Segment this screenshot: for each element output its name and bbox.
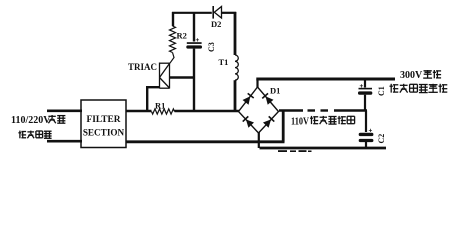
- svg-text:D1: D1: [270, 86, 280, 96]
- diode D2: [212, 6, 214, 19]
- svg-text:FILTER: FILTER: [86, 115, 120, 125]
- resistor R2: [170, 26, 176, 53]
- bridge rectifier D1: [239, 87, 279, 133]
- svg-text:C2: C2: [377, 134, 386, 144]
- svg-text:D2: D2: [211, 19, 221, 29]
- wire: top node left vertical: [172, 12, 174, 26]
- wire: AC input stub top: [47, 110, 82, 113]
- svg-text:110V: 110V: [291, 117, 309, 128]
- wire: doubler link (dashed) from bridge right corner to cap midpoint: [279, 109, 303, 111]
- wire: top horizontal: [172, 12, 212, 14]
- wire: R1 to bridge left corner: [175, 110, 240, 113]
- capacitor C2: [365, 111, 367, 133]
- bridge diode top-left: [243, 93, 254, 104]
- svg-text:TRIAC: TRIAC: [128, 62, 157, 72]
- svg-text:C3: C3: [207, 42, 216, 52]
- svg-text:R2: R2: [177, 31, 187, 41]
- svg-text:300V: 300V: [400, 70, 423, 81]
- svg-text:C1: C1: [377, 86, 386, 96]
- inductor T1: [235, 55, 238, 80]
- filter section box: [81, 100, 126, 148]
- bridge diode top-right: [262, 93, 273, 104]
- wire: C3 bottom lead down to line: [193, 49, 195, 111]
- wire: bridge - output down: [258, 133, 260, 149]
- wire: TRIAC MT2 stub + drop to line: [146, 86, 160, 88]
- bridge diode bottom-left: [243, 116, 254, 127]
- svg-text:SECTION: SECTION: [83, 128, 125, 138]
- bridge diode bottom-right: [263, 116, 274, 127]
- capacitor C1: [364, 80, 366, 88]
- wire: filter bottom output to bridge AC2: [126, 140, 285, 143]
- wire: filter top output to R1: [126, 110, 152, 113]
- wire: triac gate lead: [170, 53, 174, 64]
- wire: bridge + output up and right (300V DC bus): [256, 79, 258, 88]
- wire: negative bus: [260, 147, 387, 150]
- wire: D2 to corner, down to T1: [222, 12, 237, 14]
- svg-text:T1: T1: [219, 57, 229, 67]
- wire: AC input stub bottom: [47, 140, 82, 143]
- svg-text:R1: R1: [155, 101, 165, 111]
- triac TRIAC: [160, 63, 170, 89]
- wire: triac MT1 stub to C3 leg: [170, 76, 196, 78]
- resistor R1 (inrush): [152, 109, 175, 114]
- capacitor C3 top leg: [193, 12, 195, 42]
- cropped caption remnant marks: [278, 150, 287, 152]
- wire: T1 bottom lead: [234, 80, 237, 111]
- svg-text:110/220V: 110/220V: [11, 115, 51, 126]
